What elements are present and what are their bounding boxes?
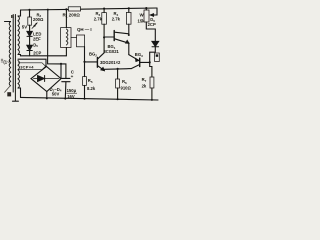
node dot rail at R3 [103,8,105,10]
transformer secondary winding lower [18,61,19,89]
svg-text:50V: 50V [52,92,60,97]
wire dc node down to bridge right corner [60,64,62,79]
node dot R6 tap [117,68,119,70]
wire relay coil bottom to y56 [65,48,67,56]
transistor BG1 base bar [113,31,115,41]
wire W top to rail [145,8,147,10]
node dot bridge bottom on rail [46,97,48,99]
LED arrows [34,23,38,26]
potentiometer W 15k body [144,10,149,22]
wire BG2 collector up to R3 column [103,37,105,52]
svg-text:8.2k: 8.2k [87,86,96,91]
wire primary top lead [5,21,11,23]
wire R2 to LED [29,25,31,31]
node dot rail at dc riser [47,9,49,11]
wire riser from rail down to dc node [48,10,61,64]
node dot cap bottom [64,98,66,100]
mains blob [7,92,11,96]
wire resistor 8.2k to rail [84,85,86,98]
wire dc node right and down to capacitor [61,64,66,78]
svg-text:2EF: 2EF [33,37,41,42]
relay coil winding [66,29,68,45]
wire BG3 base to right node [140,61,150,63]
resistor R2 200 ohm [28,17,32,25]
svg-text:2CP: 2CP [33,50,41,55]
node dot rail at W [145,7,147,9]
svg-text:R7: R7 [142,77,147,83]
wire W bottom over to D5 column [146,22,155,41]
transistor BG1 emitter with arrow [115,39,129,43]
transistor BG2 base bar [96,57,98,67]
svg-text:2.7k: 2.7k [112,17,121,22]
svg-text:(1~): (1~) [3,60,11,65]
wire bridge bottom to rail [46,92,48,99]
transistor BG3 collector diag [129,55,140,61]
wire node down to R7 [150,62,152,77]
node dot rail at R6 [117,98,119,100]
wire node to resistor 8.2k [84,62,86,77]
svg-text:200Ω: 200Ω [33,17,44,22]
wire R6 to rail [117,88,119,99]
svg-text:D5: D5 [33,42,38,48]
svg-text:15k: 15k [138,18,146,23]
wire capacitor to bottom rail [64,82,67,99]
wire BG1 collector to R4 [128,24,130,34]
wire contact down to base node [84,47,86,62]
wire secondary bottom to bottom rail [18,88,21,97]
wire base node to BG2 base [85,61,97,63]
wire bottom rail [21,97,159,100]
resistor R6 910 ohm [116,79,120,88]
transformer B primary winding [9,22,10,86]
svg-text:2CP: 2CP [148,22,156,27]
wire rail to relay box [65,9,67,27]
relay contact QH-I box [77,35,85,47]
transformer secondary winding upper (5V) [18,16,19,54]
wire lower secondary upper lead to bridge apex [18,59,46,66]
capacitor C plates [62,77,70,79]
wire R3 top to rail [103,9,105,13]
transistor BG2 emitter with arrow [98,66,104,71]
svg-text:3CP×4: 3CP×4 [20,64,34,69]
transistor BG3 lower diag [131,65,139,69]
node dot on rail at LED column [28,9,30,11]
svg-text:R6: R6 [122,79,127,85]
svg-text:R1 200Ω: R1 200Ω [63,13,81,19]
wire secondary top to rail [18,10,21,16]
wire R7 to rail [151,88,153,100]
svg-text:150μ: 150μ [67,88,77,93]
transformer core [12,15,14,93]
node dot base of BG2 [83,61,85,63]
svg-text:QH — I: QH — I [77,27,92,32]
svg-text:910Ω: 910Ω [121,86,132,91]
relay QH coil box [61,28,71,48]
bridge rectifier diamond 2CP x4 [31,66,61,91]
resistor R1 200 ohm horizontal [68,7,80,11]
svg-text:R5: R5 [88,78,93,84]
svg-text:3CG021: 3CG021 [104,49,120,54]
svg-text:2.7k: 2.7k [94,17,103,22]
wire junction to BG1 base [104,36,114,38]
wire LED to D5 [29,36,31,45]
wire BG1 emitter down to BG3 [128,43,130,54]
wire tap down to R6 [117,69,119,79]
node dot BG1 base junction [103,36,105,38]
wire R4 top to rail [128,8,130,12]
label box 3CPx4 [19,63,46,70]
LED diode [27,31,32,36]
svg-text:BG2: BG2 [89,52,97,58]
svg-text:5V: 5V [22,25,27,30]
transistor BG3 base bar [139,58,141,66]
diode D6 [152,41,159,46]
wire primary bottom lead with arrow [5,86,10,92]
svg-text:3DG201×2: 3DG201×2 [100,60,121,65]
node dot on rail [84,98,86,100]
node dot right column [149,61,151,63]
svg-text:16V: 16V [67,94,75,99]
wire R2 column top [29,10,31,17]
wire relay linkage to contact [71,37,77,39]
bridge inner diode [38,76,45,82]
node dot dc plus [60,63,62,65]
terminal box right [155,53,160,62]
wire D5 to y56 wire [29,51,31,56]
svg-text:2k: 2k [142,83,147,88]
wire top rail [21,8,69,11]
transistor BG2 collector [98,53,104,59]
svg-text:BG3: BG3 [135,52,143,58]
ground foot of core [13,100,19,102]
svg-text:+: + [71,74,74,79]
resistor R3 [102,13,107,25]
transistor BG3 emitter arrow near bar [136,59,139,62]
node dot rail at R4 [128,7,130,9]
wire junction up through R3 to rail [103,24,105,37]
wire emitter bus y69 [104,69,131,71]
resistor R4 2.7k [126,12,131,24]
node dot rail at R7 [151,99,153,101]
wire D6 down with jog to node [150,47,156,63]
wire wiper from rail corner [151,8,158,15]
diode D5 [27,45,32,50]
wire secondary 5V tap to y56 [18,55,67,56]
bridge inner lead [34,78,60,80]
node dot rail at relay riser [65,8,67,10]
resistor R7 2k [150,77,154,88]
transistor BG1 collector [115,32,129,34]
resistor R5 8.2k [83,77,87,86]
